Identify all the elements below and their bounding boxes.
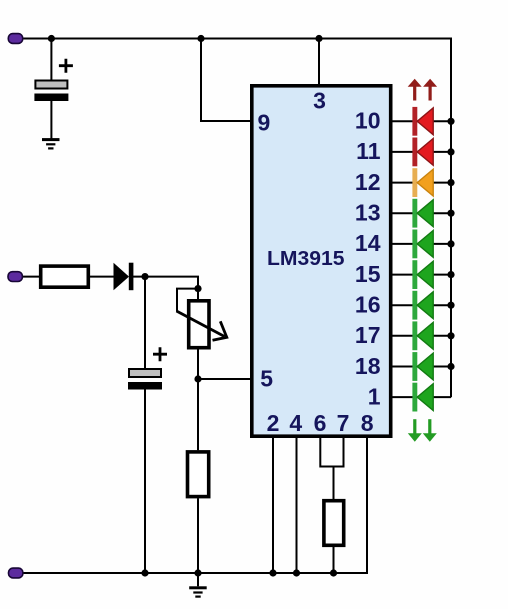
svg-text:11: 11 [356, 138, 381, 164]
svg-text:10: 10 [355, 108, 381, 134]
svg-text:2: 2 [267, 410, 280, 436]
svg-text:5: 5 [260, 366, 273, 392]
svg-text:18: 18 [355, 353, 381, 379]
svg-text:14: 14 [355, 230, 381, 256]
svg-text:LM3915: LM3915 [267, 248, 345, 270]
svg-text:9: 9 [258, 109, 271, 135]
svg-text:17: 17 [355, 322, 381, 348]
svg-text:15: 15 [355, 261, 381, 287]
svg-text:16: 16 [355, 292, 381, 318]
svg-text:6: 6 [314, 410, 327, 436]
svg-text:13: 13 [355, 200, 381, 226]
svg-text:4: 4 [289, 410, 302, 436]
svg-text:12: 12 [355, 169, 381, 195]
svg-text:8: 8 [361, 410, 374, 436]
svg-text:7: 7 [337, 410, 350, 436]
svg-text:3: 3 [313, 87, 326, 113]
svg-text:1: 1 [368, 383, 381, 409]
